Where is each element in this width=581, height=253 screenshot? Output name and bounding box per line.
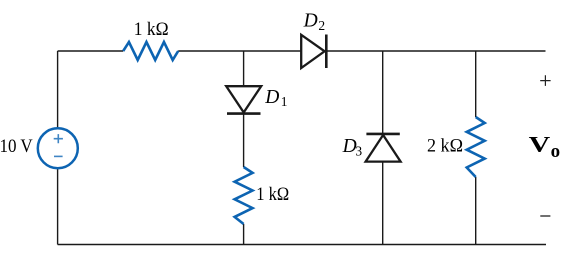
svg-text:V: V: [529, 131, 551, 156]
wire top rail right segment: [326, 50, 545, 52]
svg-text:1: 1: [281, 94, 288, 109]
diode D2: [301, 35, 324, 68]
svg-text:3: 3: [355, 143, 362, 158]
wire D1 branch upper: [243, 51, 245, 86]
minus terminal: [540, 215, 550, 217]
resistor R3 2 kOhm vertical: [467, 117, 485, 177]
wire top rail middle segment: [178, 50, 301, 52]
wire top rail left segment: [58, 50, 124, 52]
svg-text:2: 2: [318, 18, 325, 33]
svg-text:10 V: 10 V: [0, 136, 33, 157]
resistor R1 1 kOhm horizontal: [123, 42, 178, 60]
svg-text:D: D: [303, 11, 318, 32]
svg-text:2 kΩ: 2 kΩ: [427, 136, 463, 157]
wire D1 branch middle: [243, 113, 245, 167]
diode D1: [226, 86, 261, 112]
svg-text:1 kΩ: 1 kΩ: [256, 184, 289, 205]
svg-text:1 kΩ: 1 kΩ: [134, 19, 169, 40]
wire D3 branch lower: [382, 162, 384, 245]
wire left column lower: [57, 169, 59, 245]
voltage source V1 10 V: [38, 128, 78, 168]
svg-text:o: o: [551, 141, 561, 162]
plus terminal: [540, 75, 550, 86]
wire D1 branch lower: [243, 224, 245, 245]
wire 2k branch upper: [475, 51, 477, 117]
svg-text:D: D: [264, 87, 279, 108]
wire left column upper: [57, 51, 59, 128]
wire 2k branch lower: [475, 177, 477, 245]
resistor R2 1 kOhm vertical: [235, 167, 253, 224]
wire D3 branch upper: [382, 51, 384, 134]
wire bottom rail: [58, 244, 546, 246]
diode D3: [366, 135, 401, 162]
